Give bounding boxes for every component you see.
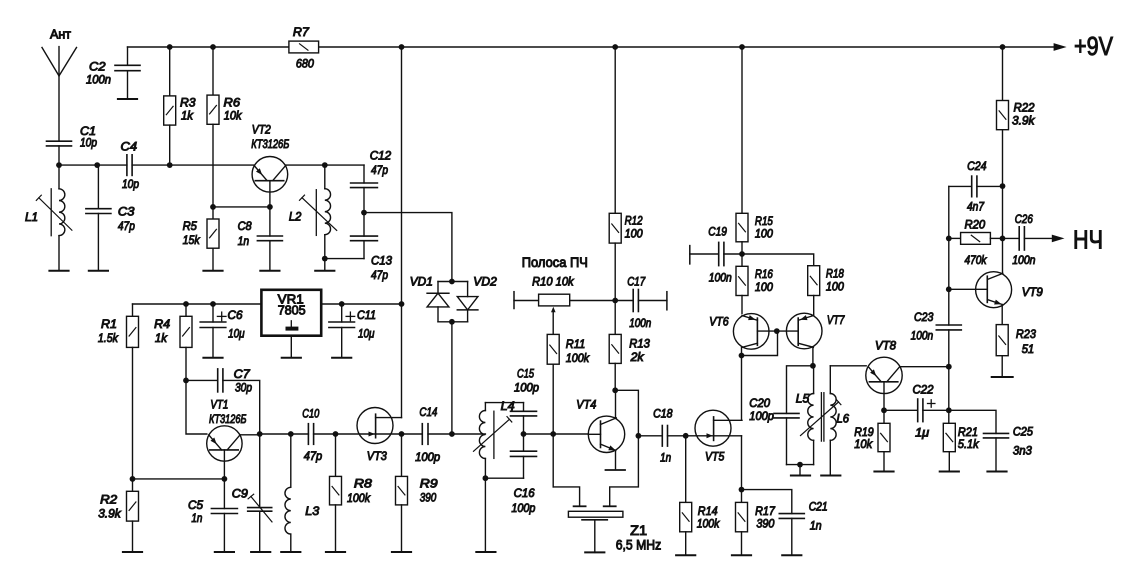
node dot bus/R6	[210, 44, 216, 50]
svg-text:2k: 2k	[630, 350, 645, 364]
wire VT3 drain to +9V rail	[401, 304, 403, 418]
capacitor C15	[511, 410, 537, 412]
ground under R23	[992, 376, 1013, 378]
svg-text:C21: C21	[809, 500, 828, 514]
capacitor C22	[917, 399, 919, 422]
ground under C11	[332, 357, 351, 359]
capacitor C2 branch	[127, 47, 129, 65]
inductor L4	[484, 403, 486, 411]
svg-text:R18: R18	[826, 267, 844, 281]
quartz resonator Z1	[568, 511, 623, 517]
node dot R20/C26	[1000, 236, 1006, 242]
svg-text:R11: R11	[566, 337, 585, 351]
capacitor C20	[774, 412, 799, 414]
wire C20/L5 bottom rail	[787, 464, 814, 466]
capacitor C11	[329, 321, 355, 323]
ground under C2	[118, 98, 137, 100]
diode VD2	[467, 282, 469, 297]
capacitor C22	[884, 409, 918, 411]
svg-text:10μ: 10μ	[228, 326, 245, 340]
svg-text:C22: C22	[913, 383, 934, 397]
capacitor C16	[511, 450, 537, 452]
svg-text:47p: 47p	[118, 219, 135, 233]
svg-text:КТ3126Б: КТ3126Б	[209, 412, 247, 426]
node dot R4	[183, 301, 189, 307]
resistor R9	[396, 476, 408, 505]
ground under R21	[940, 471, 959, 473]
capacitor C8 branch	[269, 207, 271, 236]
resistor R3	[164, 96, 176, 125]
svg-text:100p: 100p	[514, 381, 539, 395]
capacitor C12	[351, 182, 378, 184]
wire VR1 output rail	[133, 303, 262, 305]
ground under C6	[203, 357, 222, 359]
ground under R9	[392, 551, 411, 553]
ground under C3	[89, 270, 108, 272]
resistor R1	[127, 316, 139, 347]
svg-text:100k: 100k	[347, 491, 371, 505]
svg-text:C13: C13	[371, 254, 392, 268]
inductor L5	[813, 366, 815, 394]
transistor VT8	[866, 357, 902, 393]
svg-text:390: 390	[420, 490, 437, 504]
svg-text:680: 680	[296, 57, 314, 71]
resistor R19	[878, 423, 890, 451]
resistor R21	[943, 423, 955, 451]
svg-text:100: 100	[625, 226, 643, 240]
ground under L6	[821, 475, 840, 477]
svg-text:100n: 100n	[709, 271, 732, 285]
node dot bus/R3	[167, 44, 173, 50]
resistor R15	[736, 213, 748, 242]
svg-text:Ант: Ант	[50, 27, 71, 42]
node dot C24	[1000, 183, 1006, 189]
svg-text:R2: R2	[100, 493, 117, 507]
node dot R5	[210, 204, 216, 210]
wire VT3 source to output node	[376, 433, 402, 435]
svg-text:VT4: VT4	[576, 397, 596, 411]
wire R13 to VT4 collector node	[614, 363, 616, 390]
adjust arrow L5/L6	[801, 402, 839, 436]
diode VD1	[437, 282, 439, 294]
resistor R4 branch	[185, 304, 187, 316]
ground under L2 tank	[315, 270, 334, 272]
svg-text:R16: R16	[755, 267, 773, 281]
ground under C8	[260, 270, 279, 272]
ground under R2	[123, 551, 142, 553]
svg-text:15k: 15k	[183, 233, 201, 247]
+9V arrowhead	[1054, 43, 1067, 51]
node dot C12/C13 tap	[361, 210, 367, 216]
capacitor C10	[307, 424, 309, 445]
ground under R8	[326, 551, 345, 553]
antenna Ант	[58, 47, 60, 142]
capacitor C24	[971, 176, 973, 197]
node dot R8	[333, 431, 339, 437]
transistor VT3 (FET)	[357, 408, 393, 444]
resistor R11	[547, 334, 559, 364]
node dot C15/C16	[521, 431, 527, 437]
resistor R2	[127, 491, 139, 521]
svg-text:L5: L5	[796, 391, 810, 405]
node dot C6	[210, 301, 216, 307]
capacitor C15 branch	[523, 403, 525, 412]
svg-text:C23: C23	[914, 310, 934, 324]
capacitor C19	[718, 242, 720, 265]
svg-text:C9: C9	[232, 487, 248, 501]
svg-text:47p: 47p	[371, 268, 388, 282]
wire AGC vertical	[948, 186, 950, 325]
potentiometer R10	[513, 292, 515, 309]
wire +9V top bus right segment	[319, 46, 1054, 48]
svg-text:51: 51	[1022, 342, 1034, 356]
wire C24 node to R20 node	[1002, 186, 1004, 238]
svg-text:C15: C15	[517, 367, 534, 381]
node dot tank gnd	[322, 256, 328, 262]
wire R11 to IF rail and crystal	[552, 364, 554, 487]
transistor VT9	[976, 272, 1012, 308]
svg-text:470k: 470k	[965, 253, 988, 267]
capacitor C4	[126, 155, 128, 176]
ground under L1	[49, 270, 68, 272]
wire L4 bottom rail	[485, 477, 523, 479]
wire C1 to input rail	[58, 146, 60, 165]
svg-text:1μ: 1μ	[915, 425, 929, 439]
svg-text:НЧ: НЧ	[1073, 225, 1103, 255]
node dot VT4 collector	[612, 387, 618, 393]
ground under C5	[215, 551, 234, 553]
capacitor C7	[186, 379, 218, 381]
svg-text:47p: 47p	[371, 163, 388, 177]
capacitor C3 branch	[97, 165, 99, 209]
wire crystal right loop	[610, 436, 639, 506]
resistor R18	[808, 266, 820, 296]
wire R16 to VT6	[741, 296, 743, 314]
wire R20 node to VT9 collector	[1002, 238, 1004, 272]
node dot R20 left	[946, 236, 952, 242]
wire VT9 emitter to R23	[1001, 305, 1003, 325]
resistor R22	[997, 101, 1009, 130]
svg-text:1n: 1n	[810, 519, 822, 533]
node dot L1	[56, 162, 62, 168]
node dot bus/R15	[739, 44, 745, 50]
inductor L1	[58, 165, 60, 189]
svg-text:VD1: VD1	[410, 274, 433, 288]
wire +9V drop to VR1 rail	[401, 47, 403, 304]
ground under L3	[281, 551, 300, 553]
transistor VT4	[588, 416, 624, 452]
R10 wiper arrow	[551, 307, 556, 312]
wire IF rail to VT4 base	[524, 433, 589, 435]
svg-text:КТ3126Б: КТ3126Б	[251, 137, 289, 151]
resistor R2 branch	[132, 479, 134, 491]
capacitor C21	[779, 513, 804, 515]
wire VT8 base stem	[883, 382, 885, 411]
capacitor C25	[984, 432, 1009, 434]
wire R18 to VT7	[813, 296, 815, 316]
svg-text:100n: 100n	[911, 329, 934, 343]
plus sign C6	[217, 315, 226, 317]
capacitor C13	[351, 235, 378, 237]
svg-text:100n: 100n	[1012, 253, 1036, 267]
svg-text:R4: R4	[154, 317, 170, 331]
svg-text:R6: R6	[224, 95, 241, 109]
node dot R11/rail	[550, 431, 556, 437]
svg-text:10p: 10p	[80, 136, 97, 150]
wire bus to R15	[741, 47, 743, 213]
resistor R4	[180, 316, 192, 347]
svg-text:7805: 7805	[278, 303, 306, 318]
svg-text:R9: R9	[420, 477, 438, 491]
wire VT2 base stem	[269, 181, 271, 207]
svg-text:R8: R8	[354, 477, 372, 491]
wire node to R18	[742, 254, 814, 266]
capacitor C16 branch	[523, 434, 525, 451]
resistor R20	[961, 233, 991, 245]
svg-text:L2: L2	[289, 210, 302, 224]
svg-text:VT3: VT3	[367, 449, 387, 463]
wire R1 to base rail	[132, 347, 134, 479]
capacitor C5 branch	[223, 479, 225, 509]
svg-text:100: 100	[826, 280, 844, 294]
svg-text:C18: C18	[653, 406, 673, 420]
node dot R17/C21	[739, 487, 745, 493]
node dot C22/R21	[946, 407, 952, 413]
svg-text:C25: C25	[1013, 425, 1033, 439]
svg-text:100p: 100p	[511, 501, 535, 515]
resistor R6	[207, 95, 219, 124]
NCh arrowhead	[1052, 235, 1065, 243]
capacitor C1	[47, 140, 72, 142]
node dot VT6/VT7 bases	[774, 328, 780, 334]
wire to C20	[787, 366, 813, 414]
svg-text:Z1: Z1	[630, 523, 647, 538]
resistor R14 branch	[685, 436, 687, 503]
svg-text:VT1: VT1	[210, 397, 228, 411]
svg-text:10p: 10p	[122, 177, 139, 191]
svg-text:Полоса ПЧ: Полоса ПЧ	[522, 255, 588, 270]
svg-text:+9V: +9V	[1074, 31, 1114, 61]
inductor L2	[324, 165, 326, 189]
svg-text:C24: C24	[967, 159, 987, 173]
capacitor C9	[248, 507, 272, 509]
node dot R3/C4	[167, 162, 173, 168]
wire R3 to input rail	[169, 125, 171, 165]
transistor VT1	[207, 426, 242, 461]
transistor VT2	[252, 157, 288, 193]
capacitor C11 (electrolytic)	[341, 304, 343, 322]
svg-text:100k: 100k	[566, 351, 590, 365]
capacitor C8	[257, 235, 282, 237]
wire R22 to C24 node	[1002, 130, 1004, 186]
svg-text:VD2: VD2	[473, 274, 497, 288]
svg-text:C12: C12	[370, 149, 392, 163]
resistor R13 branch	[614, 301, 616, 335]
wire R12 to node	[614, 243, 616, 300]
svg-text:100n: 100n	[629, 316, 651, 330]
svg-text:C16: C16	[514, 486, 535, 500]
svg-text:1n: 1n	[660, 451, 671, 465]
wire R4 to C7 node	[185, 347, 187, 380]
svg-text:C14: C14	[419, 405, 437, 419]
wire bus to R12	[614, 47, 616, 213]
svg-text:100: 100	[755, 280, 773, 294]
svg-text:1n: 1n	[191, 511, 202, 525]
node dot R19/C22	[881, 407, 887, 413]
capacitor C17	[632, 290, 634, 312]
node dot VD top	[449, 279, 455, 285]
resistor R7	[289, 41, 319, 53]
svg-text:1k: 1k	[181, 109, 194, 123]
svg-text:10k: 10k	[224, 109, 243, 123]
svg-text:6,5 MHz: 6,5 MHz	[616, 538, 662, 553]
capacitor C12 branch	[363, 165, 365, 183]
resistor R13	[609, 334, 621, 363]
capacitor C14	[402, 433, 423, 435]
wire oscillator rail VT1-VT3	[260, 433, 309, 435]
node dot bus/R12	[612, 44, 618, 50]
resistor R8	[330, 476, 342, 505]
svg-text:L6: L6	[837, 412, 850, 426]
node dot C7/R4	[183, 378, 189, 384]
capacitor C23	[936, 324, 961, 326]
capacitor C5	[211, 508, 237, 510]
svg-text:C11: C11	[357, 308, 376, 322]
wire VR1 gnd pin	[290, 336, 292, 358]
wire VT8 collector to AGC line	[900, 366, 949, 368]
wire VT5 gate/source line	[686, 435, 714, 437]
svg-text:R1: R1	[101, 317, 117, 331]
capacitor C13 branch	[363, 213, 365, 237]
ground under Z1	[585, 551, 604, 553]
svg-text:C26: C26	[1015, 212, 1033, 226]
svg-text:1k: 1k	[155, 331, 168, 345]
svg-text:C20: C20	[749, 396, 770, 410]
capacitor C18	[638, 435, 662, 437]
resistor R17 branch	[741, 490, 743, 503]
capacitor C26	[1018, 227, 1020, 250]
svg-text:VT6: VT6	[709, 315, 729, 329]
node dot bus/VR1 feed	[399, 44, 405, 50]
wire VT7 collector down	[812, 348, 814, 366]
node dot C8	[267, 204, 273, 210]
svg-text:L1: L1	[25, 210, 38, 224]
wire tank bottom rail	[325, 258, 364, 260]
svg-text:L3: L3	[305, 504, 319, 518]
node dot tank gnd	[797, 462, 803, 468]
capacitor C9 (trimmer) branch	[259, 434, 261, 508]
svg-text:R10 10k: R10 10k	[532, 274, 574, 288]
svg-text:10k: 10k	[854, 437, 873, 451]
svg-text:5.1k: 5.1k	[958, 437, 980, 451]
node dot VT6 col	[739, 353, 745, 359]
wire VD bottom to IF rail	[451, 322, 453, 434]
resistor R8 branch	[335, 434, 337, 476]
ground under R17	[732, 554, 751, 556]
ground under R14	[676, 554, 695, 556]
node dot L2 top	[322, 162, 328, 168]
ground under L4	[476, 551, 495, 553]
inductor L6	[829, 366, 831, 394]
capacitor C19	[689, 246, 691, 264]
svg-text:C5: C5	[188, 498, 203, 512]
ground under C9	[251, 551, 270, 553]
svg-text:C3: C3	[118, 205, 135, 219]
svg-text:VT8: VT8	[875, 339, 896, 353]
node dot VT9 base	[946, 286, 952, 292]
resistor R23	[996, 325, 1008, 356]
svg-text:1.5k: 1.5k	[98, 331, 119, 345]
capacitor C6 (electrolytic)	[212, 304, 214, 322]
resistor R9 branch	[401, 434, 403, 476]
svg-text:100k: 100k	[697, 517, 720, 531]
resistor R5	[207, 219, 219, 248]
ground under R5	[203, 270, 222, 272]
node dot VT3 out	[399, 431, 405, 437]
wire base node rail	[213, 206, 270, 208]
wire VT5 source down	[741, 436, 743, 490]
svg-text:4n7: 4n7	[967, 200, 985, 214]
diode pair rails	[438, 281, 468, 283]
svg-text:C8: C8	[238, 219, 252, 233]
capacitor C25 branch	[949, 410, 996, 433]
wire VT1 collector link	[240, 434, 260, 436]
resistor R14	[680, 502, 692, 531]
capacitor C14	[421, 424, 423, 445]
wire bus to R3	[169, 47, 171, 96]
svg-text:R20: R20	[965, 217, 986, 231]
svg-text:VT2: VT2	[252, 123, 271, 137]
svg-text:C6: C6	[228, 308, 243, 322]
svg-text:3n3: 3n3	[1013, 444, 1032, 458]
electrode bar right	[604, 505, 616, 507]
transformer core	[820, 393, 822, 441]
node dot VT8 collector	[946, 364, 952, 370]
resistor R5 branch	[212, 207, 214, 219]
svg-text:100: 100	[755, 226, 773, 240]
capacitor C3	[86, 208, 111, 210]
wire VT1 emitter feed	[186, 380, 207, 434]
capacitor C18	[661, 426, 663, 447]
svg-text:R23: R23	[1016, 327, 1036, 341]
node dot bus/R22	[1000, 44, 1006, 50]
capacitor C24	[949, 185, 972, 187]
wire VR1 input rail	[321, 303, 401, 305]
capacitor C21 branch	[742, 490, 792, 514]
wire +9V top bus left segment	[128, 46, 289, 48]
svg-text:R7: R7	[293, 25, 310, 39]
wire base bias rail	[133, 478, 225, 480]
inductor L3 branch	[290, 434, 292, 487]
node dot R12/R10/C17	[612, 298, 618, 304]
wire bus to R6	[212, 47, 214, 95]
wire L4 top rail	[485, 402, 523, 404]
wire bus to R22	[1002, 47, 1004, 101]
resistor R16	[736, 266, 748, 295]
svg-text:C4: C4	[121, 140, 138, 154]
node dot C3	[94, 162, 100, 168]
svg-text:VT9: VT9	[1022, 285, 1043, 299]
svg-text:C7: C7	[234, 367, 251, 381]
svg-text:VT5: VT5	[705, 449, 725, 463]
electrode bar left	[574, 505, 586, 507]
svg-text:1n: 1n	[238, 234, 250, 248]
svg-text:100p: 100p	[749, 409, 774, 423]
resistor R12	[609, 213, 621, 243]
wire VT6 collector down	[741, 348, 743, 356]
plus sign C11	[346, 315, 355, 317]
capacitor C6	[200, 321, 226, 323]
